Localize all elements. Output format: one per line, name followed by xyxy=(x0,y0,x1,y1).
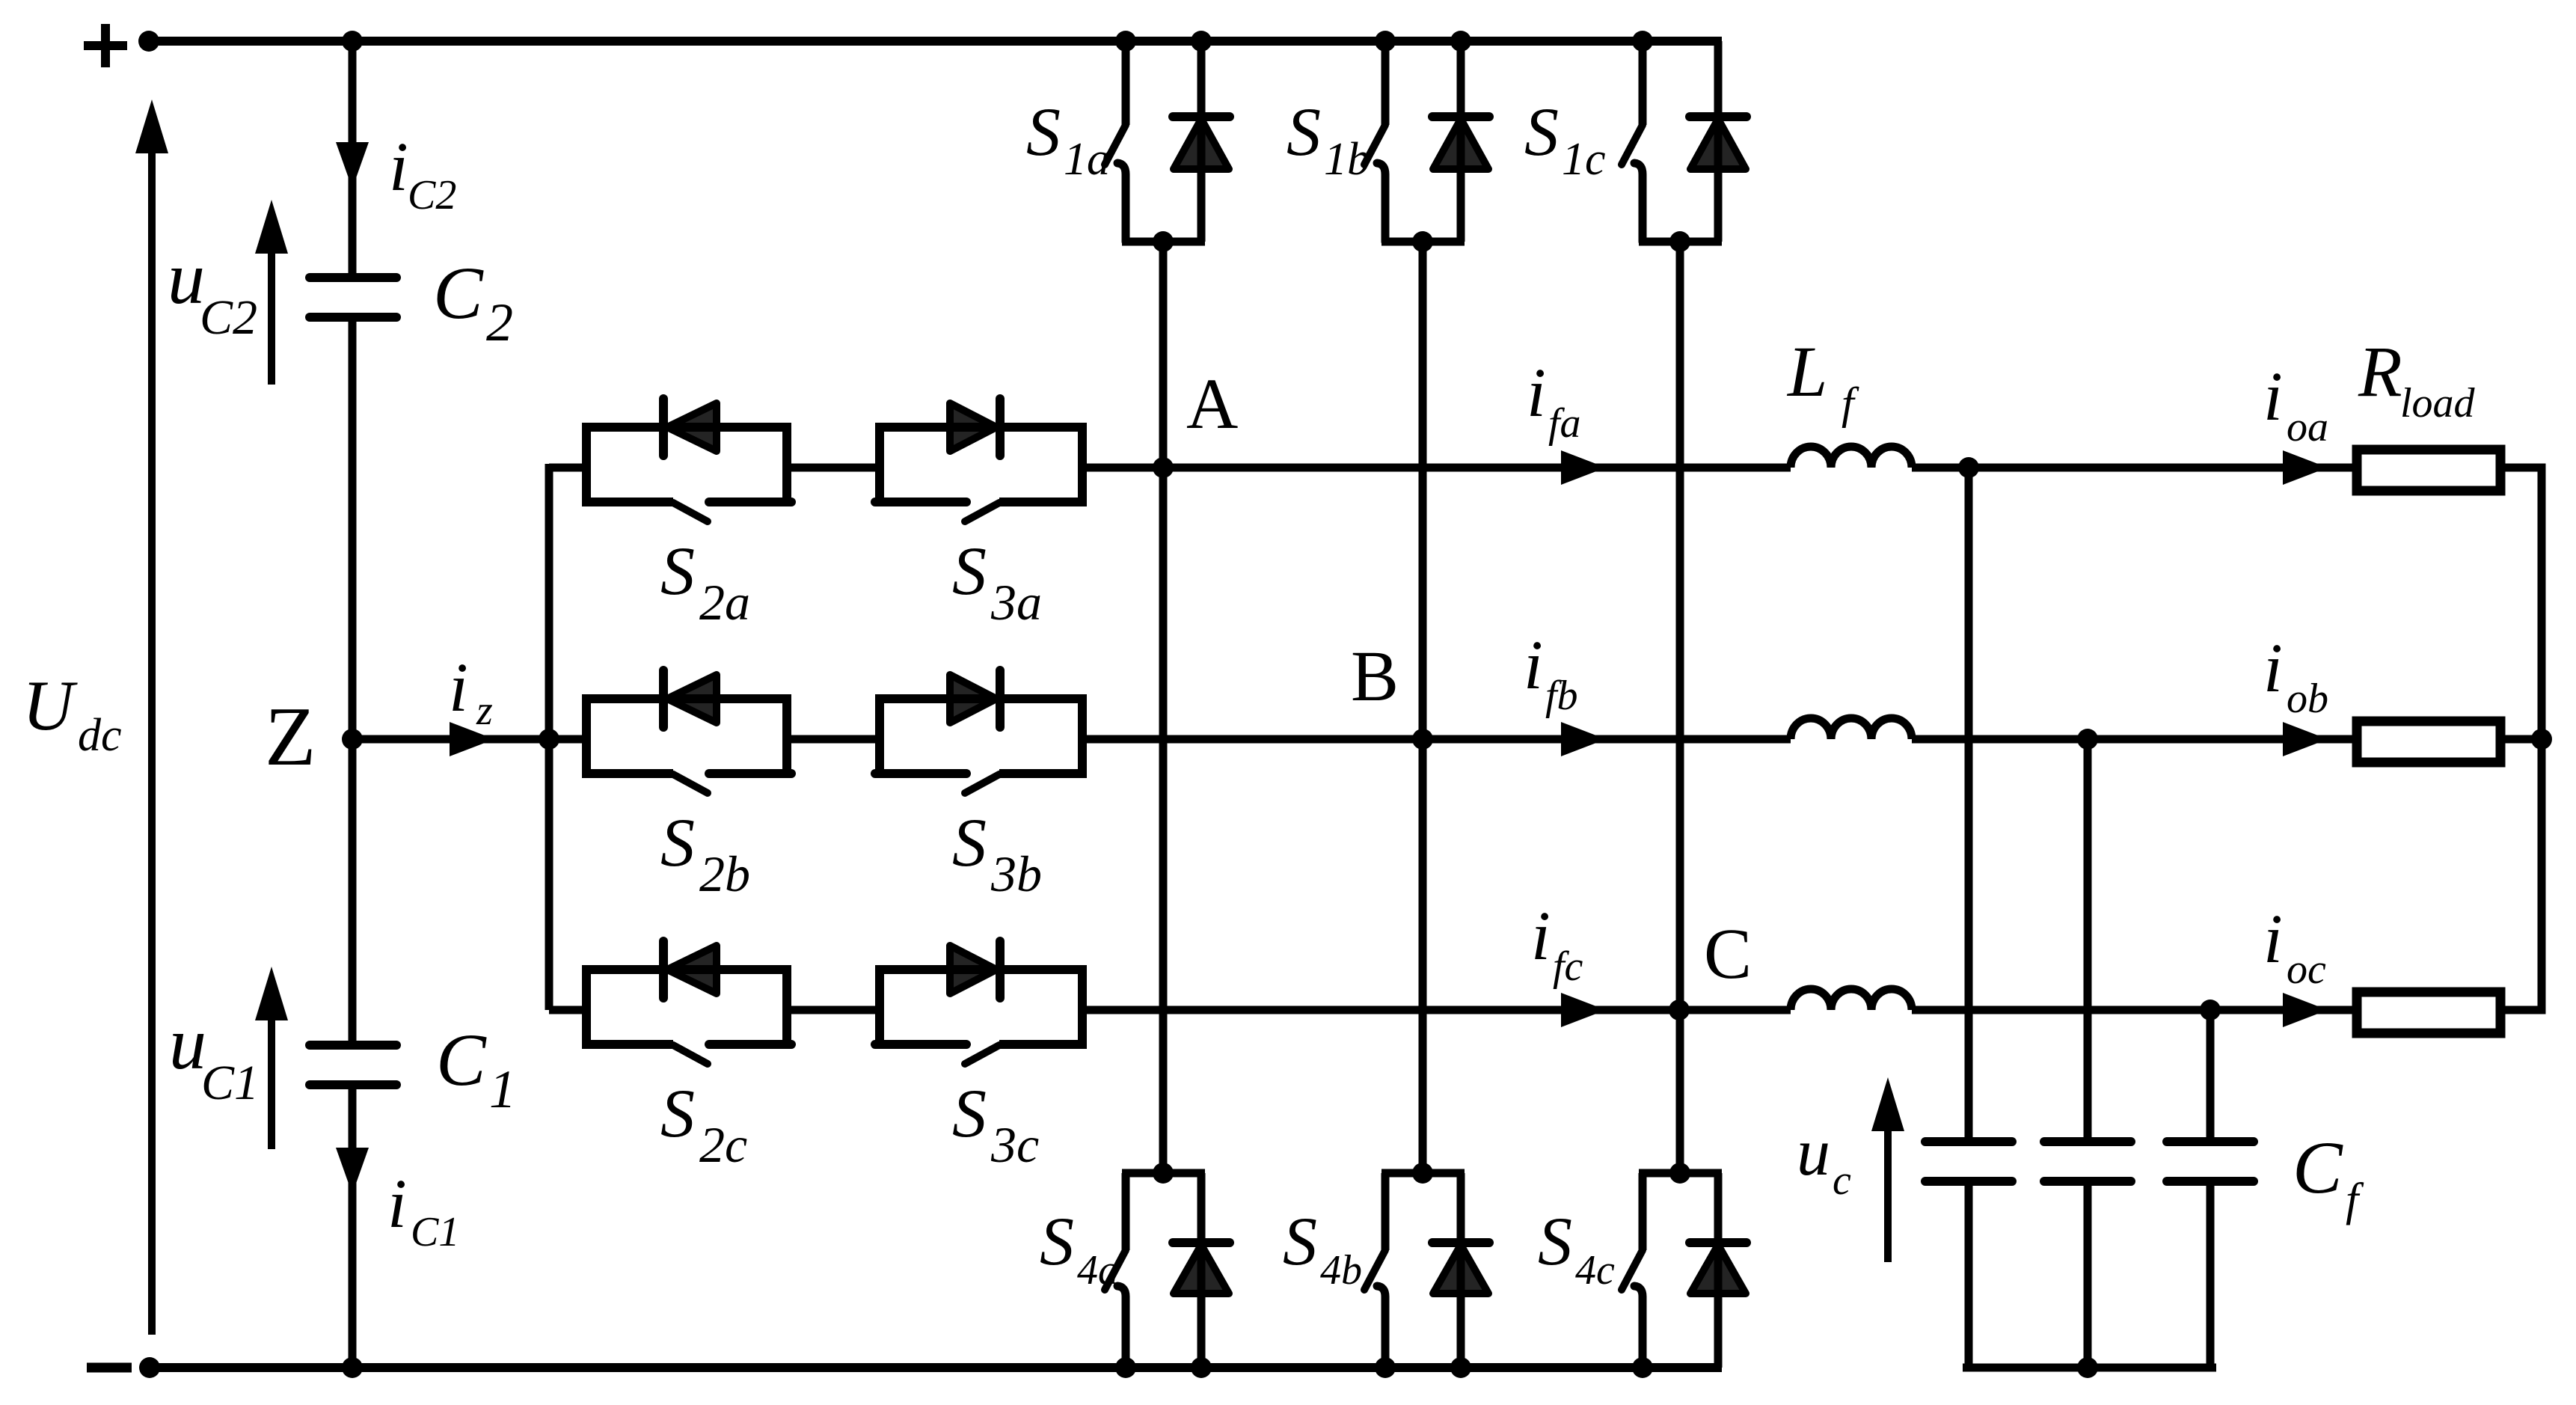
svg-text:fb: fb xyxy=(1545,673,1578,719)
svg-text:i: i xyxy=(449,649,468,726)
svg-text:S: S xyxy=(660,1075,695,1151)
svg-text:L: L xyxy=(1786,331,1827,411)
svg-text:C2: C2 xyxy=(408,172,456,218)
svg-text:i: i xyxy=(1527,355,1546,432)
svg-text:u: u xyxy=(1797,1115,1830,1190)
svg-text:C1: C1 xyxy=(201,1056,259,1110)
svg-text:Z: Z xyxy=(265,691,316,783)
svg-text:z: z xyxy=(476,688,493,734)
svg-text:S: S xyxy=(952,1075,987,1151)
svg-text:fc: fc xyxy=(1553,943,1583,990)
svg-text:i: i xyxy=(1531,898,1551,975)
svg-text:S: S xyxy=(1538,1203,1572,1279)
svg-text:S: S xyxy=(1287,94,1321,170)
svg-text:i: i xyxy=(389,129,408,206)
svg-text:S: S xyxy=(952,533,987,609)
svg-text:C: C xyxy=(2293,1126,2343,1209)
svg-text:i: i xyxy=(1524,627,1543,704)
svg-text:i: i xyxy=(2263,630,2283,707)
svg-text:1c: 1c xyxy=(1562,134,1606,185)
svg-text:3b: 3b xyxy=(990,845,1042,902)
svg-text:oa: oa xyxy=(2287,404,2328,450)
svg-text:C: C xyxy=(1704,913,1752,994)
svg-text:2a: 2a xyxy=(699,574,750,631)
svg-text:4a: 4a xyxy=(1077,1247,1119,1294)
svg-text:S: S xyxy=(1283,1203,1317,1279)
svg-text:1: 1 xyxy=(489,1059,516,1119)
svg-text:C2: C2 xyxy=(200,290,257,345)
svg-text:S: S xyxy=(1040,1203,1074,1279)
svg-text:load: load xyxy=(2400,380,2476,426)
svg-text:i: i xyxy=(2263,358,2283,435)
svg-text:3c: 3c xyxy=(990,1116,1039,1173)
svg-text:oc: oc xyxy=(2287,946,2326,993)
svg-text:ob: ob xyxy=(2287,676,2328,722)
svg-text:S: S xyxy=(1524,94,1559,170)
svg-text:B: B xyxy=(1351,636,1399,716)
svg-text:3a: 3a xyxy=(990,574,1042,631)
svg-text:c: c xyxy=(1833,1157,1851,1204)
svg-text:C: C xyxy=(436,1018,487,1101)
svg-text:1a: 1a xyxy=(1064,134,1110,185)
svg-text:4c: 4c xyxy=(1575,1247,1615,1294)
svg-text:2b: 2b xyxy=(699,845,750,902)
svg-text:U: U xyxy=(22,666,78,745)
svg-text:i: i xyxy=(387,1166,407,1243)
svg-text:S: S xyxy=(952,804,987,881)
svg-text:S: S xyxy=(660,804,695,881)
svg-text:dc: dc xyxy=(78,710,122,761)
svg-text:4b: 4b xyxy=(1320,1247,1362,1294)
svg-text:fa: fa xyxy=(1548,400,1581,447)
svg-text:i: i xyxy=(2263,901,2283,978)
svg-text:R: R xyxy=(2358,331,2402,411)
svg-text:S: S xyxy=(660,533,695,609)
svg-text:C: C xyxy=(433,251,484,334)
svg-text:2: 2 xyxy=(486,293,513,352)
svg-text:1b: 1b xyxy=(1324,134,1370,185)
svg-text:2c: 2c xyxy=(699,1116,747,1173)
svg-text:A: A xyxy=(1186,364,1238,444)
svg-text:C1: C1 xyxy=(411,1209,459,1255)
svg-text:S: S xyxy=(1026,94,1061,170)
